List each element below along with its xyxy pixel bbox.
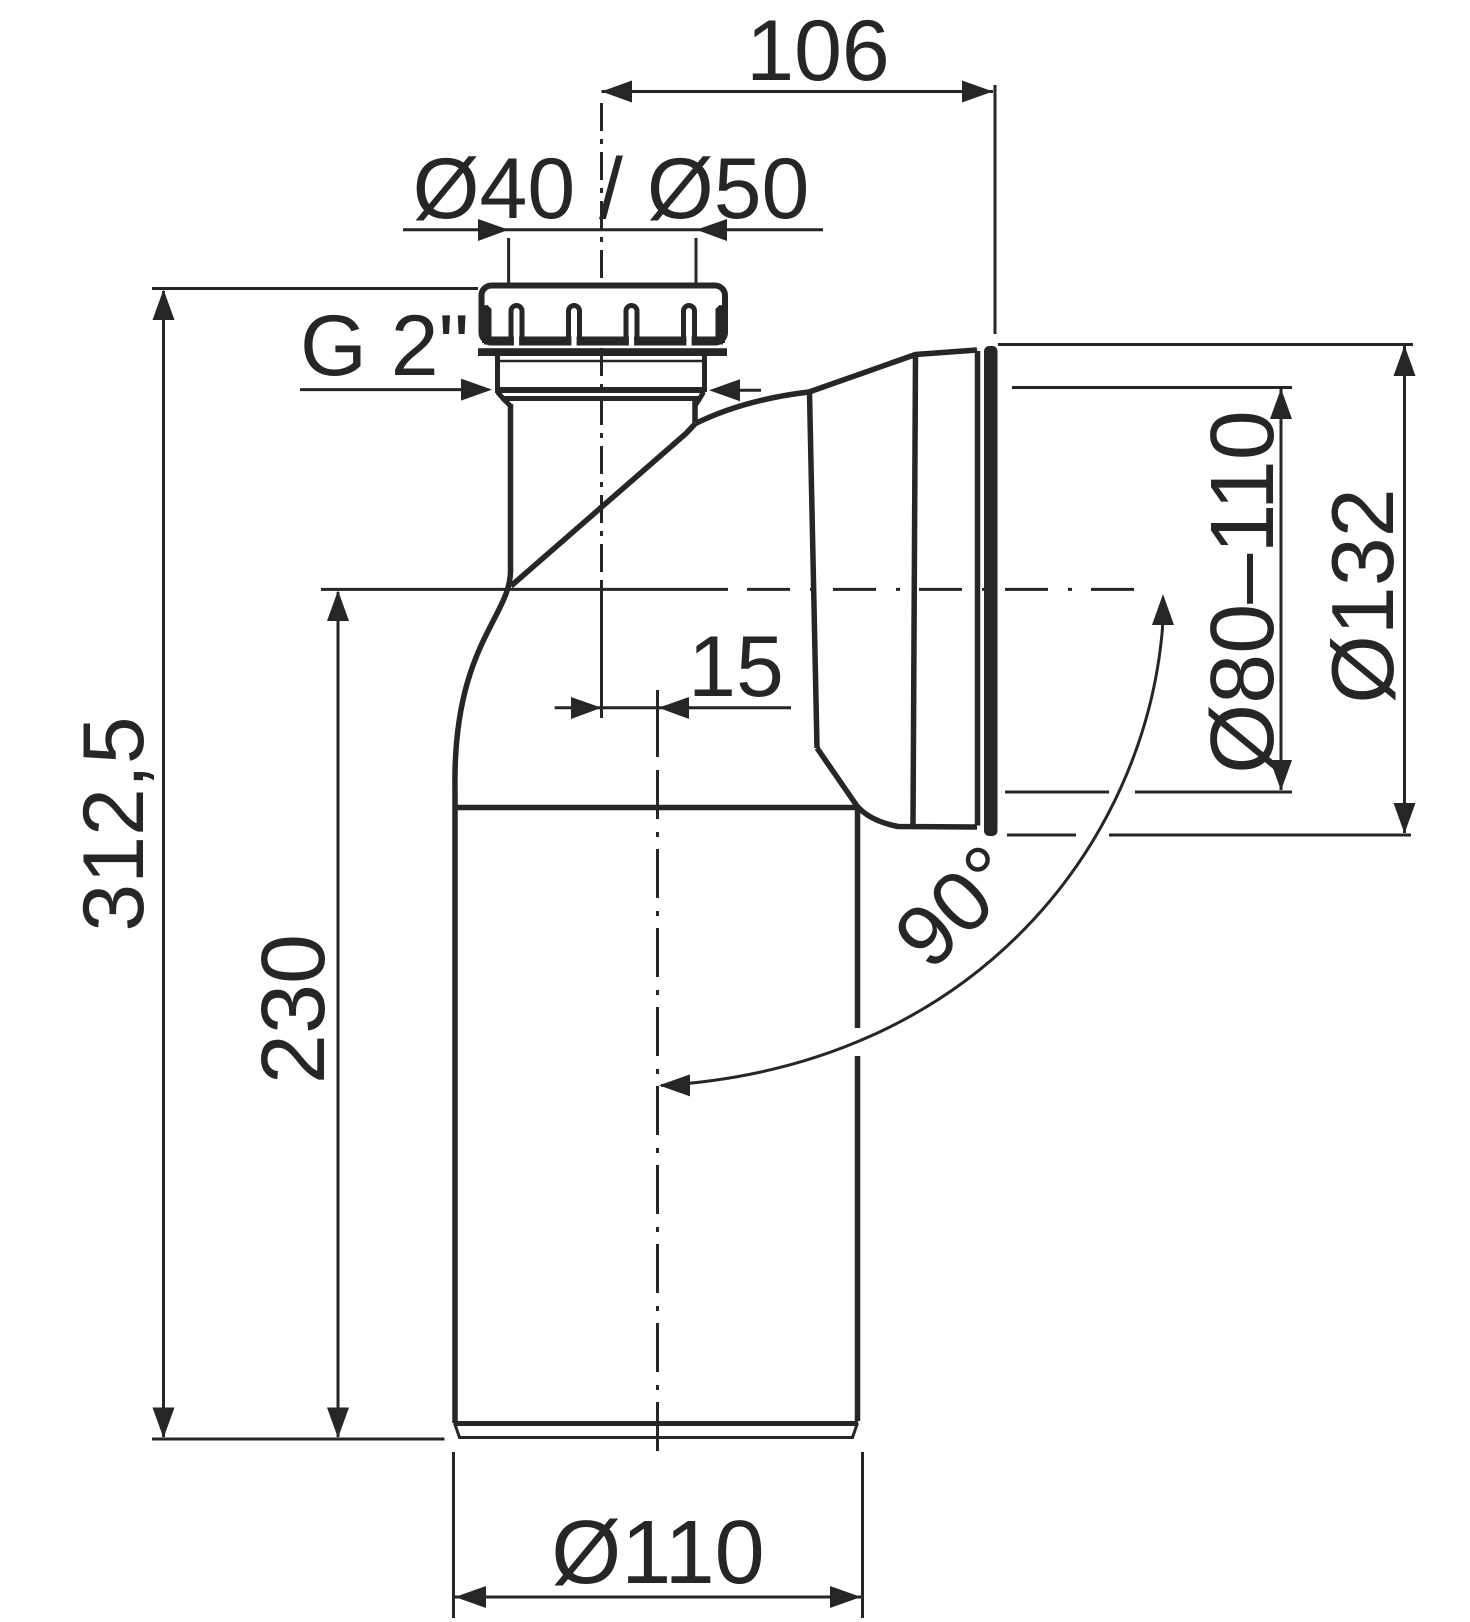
dimension Ø80–110: bottom arrowhead [1270,760,1292,791]
dimension 230: top arrowhead [327,591,349,622]
dimension 312,5: bottom extension line [152,1438,445,1441]
socket cylinder: end edge [975,351,981,826]
body: pipe right wall upper part [855,808,861,1029]
svg-text:90°: 90° [877,827,1037,986]
union nut: slot slit 3 [629,316,634,346]
dimension 15: dimension line [555,706,791,709]
socket cone: left edge [810,393,818,749]
dimension 230: bottom arrowhead [327,1408,349,1439]
svg-text:Ø80–110: Ø80–110 [1193,410,1293,774]
union nut: slot slit 4 [686,316,691,346]
dimension Ø132: dimension line [1403,346,1406,833]
dimension 230: dimension line [337,592,340,1437]
thread neck: right wall [702,354,707,392]
union nut: left edge tooth [482,305,492,343]
centerline outlet horizontal (solid extension segment) [321,588,728,591]
dimension 312,5: value label (rotated) [66,716,162,931]
dimension Ø132: bottom arrowhead [1394,803,1416,834]
svg-text:312,5: 312,5 [66,716,162,931]
svg-text:Ø132: Ø132 [1313,488,1412,703]
union nut: castellation slot 1 [511,306,522,344]
dimension Ø110: left extension line [452,1452,455,1618]
svg-text:230: 230 [244,934,344,1084]
svg-text:15: 15 [688,619,784,715]
socket cone: bottom outline [817,748,977,827]
thread neck: left chamfer [498,392,511,406]
dimension 230: value label (rotated) [244,934,344,1084]
angle 90°: top arrowhead [1152,594,1174,625]
union nut: castellation slot 3 [626,306,637,344]
union nut: bottom band [484,337,723,345]
svg-text:Ø110: Ø110 [551,1503,765,1603]
label G 2": right leader tail [738,389,761,392]
angle 90°: bottom arrowhead [659,1074,690,1096]
dimension Ø80–110: dimension line [1280,389,1283,790]
socket rim disc [984,346,998,836]
dimension 106: dimension line [602,90,994,93]
thread neck: right chamfer [696,392,704,405]
dimension Ø80–110: value label (rotated) [1193,410,1293,774]
socket: cone/cylinder divider [913,355,916,826]
dimension 106: right extension line [994,85,997,334]
body: pipe top shoulder line [455,805,857,811]
body: pipe bottom edge [454,1421,858,1426]
thread neck: upper thin line [498,360,702,363]
union nut: castellation slot 4 [684,306,695,344]
angle 90°: arc [661,600,1163,1086]
centerline inlet vertical (solid extension segment) [600,580,603,718]
dimension Ø132: value label (rotated) [1313,488,1412,703]
body: upper outline from neck to socket cone [696,350,978,424]
dimension Ø132: bottom extension line (left of arc) [1007,834,1076,837]
thread neck: lower seal line [504,396,700,401]
centerline body vertical (dash-dot) [656,770,659,1460]
dimension Ø132: bottom extension line (right of arc) [1109,834,1411,837]
thread neck: thick shoulder line [495,387,705,393]
dimension Ø110: dimension line [455,1596,861,1599]
union nut: castellation slot 2 [569,306,580,344]
label G 2": left arrowhead at thread [461,379,492,401]
dimension 15: right arrowhead [659,697,690,719]
dimension Ø40/Ø50: right extension line [695,238,698,283]
dimension Ø132: top arrowhead [1394,346,1416,377]
svg-text:106: 106 [746,3,890,99]
body: pipe right wall lower part (below arc gap) [855,1056,861,1421]
body: inlet pipe left wall and outer bend into Ø110 pipe [455,404,511,1423]
thread neck: left wall [495,354,500,392]
svg-text:G 2": G 2" [300,298,469,394]
dimension 312,5: top extension line [152,287,478,290]
dimension Ø40/Ø50: left arrowhead [478,219,509,241]
centerline outlet horizontal (dash-dot) [747,588,1145,591]
centerline inlet vertical (dash-dot) [600,103,603,572]
union nut: slot slit 1 [514,316,519,346]
union nut: flange washer [478,348,727,356]
angle 90°: value label (rotated) [877,827,1037,986]
dimension 312,5: dimension line [162,291,165,1437]
label G 2": right arrowhead at thread [709,379,740,401]
dimension Ø40/Ø50: dimension line [403,228,823,231]
union nut: slot slit 2 [571,316,576,346]
dimension 312,5: top arrowhead [153,290,175,321]
body: pipe bottom lip [455,1423,858,1438]
union nut: outer body [482,286,726,343]
dimension Ø110: right extension line [861,1452,864,1618]
dimension Ø80–110: top extension line [1012,386,1292,389]
body: inner silhouette diagonal of cone transition [511,424,696,587]
dimension Ø80–110: top arrowhead [1270,389,1292,420]
dimension Ø110: right arrowhead [830,1586,861,1608]
dimension Ø132: top extension line [998,343,1413,346]
dimension 312,5: bottom arrowhead [153,1408,175,1439]
body: neck right lower wall [692,400,698,423]
dimension Ø110: left arrowhead [455,1586,486,1608]
dimension 106: right arrowhead [962,81,993,103]
svg-text:Ø40 / Ø50: Ø40 / Ø50 [413,141,810,237]
label G 2": leader line [300,388,463,391]
centerline body vertical (solid tick) [656,690,659,757]
dimension Ø80–110: bottom extension line (left of arc) [1005,791,1109,794]
dimension Ø40/Ø50: right arrowhead [696,219,727,241]
dimension 106: left arrowhead [602,81,633,103]
dimension Ø40/Ø50: left extension line [507,238,510,283]
dimension Ø80–110: bottom extension line (right of arc) [1135,791,1292,794]
union nut: right edge tooth [716,305,726,343]
dimension 15: left arrowhead [571,697,602,719]
